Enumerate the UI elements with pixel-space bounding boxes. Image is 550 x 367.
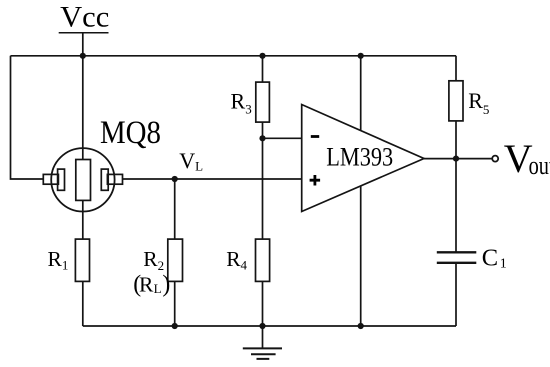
wire R3 R4 vertical branch <box>262 56 264 326</box>
op-amp U1 LM393 triangle <box>302 105 424 212</box>
svg-text:VL: VL <box>179 148 203 174</box>
wire top supply rail <box>11 55 457 57</box>
svg-text:Vcc: Vcc <box>60 1 109 34</box>
sensor MQ8 right pin tab <box>107 174 122 184</box>
wire node VL horizontal to op-amp plus input <box>123 178 302 180</box>
terminal Vout open circle <box>492 156 498 162</box>
node junction Vcc on top rail <box>80 53 86 59</box>
svg-text:R3: R3 <box>231 88 252 116</box>
svg-text:): ) <box>162 272 170 298</box>
sensor MQ8 left pin tab <box>43 174 58 184</box>
op-amp plus input sign <box>310 175 321 186</box>
wire MQ8 heater / R1 vertical branch <box>82 56 84 326</box>
node junction R3 top on top rail <box>259 53 265 59</box>
svg-text:MQ8: MQ8 <box>100 115 161 151</box>
resistor R5 <box>449 81 463 121</box>
wire C1 lower stem <box>455 263 457 326</box>
wire R3 bottom to op-amp minus input <box>263 137 302 139</box>
resistor R2 <box>168 239 183 281</box>
sensor MQ8 right electrode plate <box>101 169 108 190</box>
sensor MQ8 left electrode plate <box>58 169 65 190</box>
wire R5 C1 branch upper <box>455 56 457 253</box>
svg-text:R5: R5 <box>468 88 489 117</box>
sensor MQ8 heater element <box>76 160 91 201</box>
wire op-amp supply line <box>360 56 362 326</box>
node junction R3 bottom minus input <box>259 135 265 141</box>
node junction ground on bottom rail <box>259 323 265 329</box>
node junction op-amp supply on top rail <box>358 53 364 59</box>
svg-text:LM393: LM393 <box>326 142 393 172</box>
capacitor C1 plates <box>437 252 477 262</box>
wire op-amp output to Vout terminal <box>424 158 492 160</box>
svg-text:L: L <box>154 281 162 296</box>
wire left branch from rail to MQ8 left pin <box>11 56 44 179</box>
label RL parenthetical <box>133 272 170 298</box>
svg-text:Vout: Vout <box>504 136 550 181</box>
node junction R2 bottom rail <box>172 323 178 329</box>
resistor R1 <box>75 239 89 281</box>
node VL junction <box>172 176 178 182</box>
op-amp minus input sign <box>311 135 319 138</box>
label Vcc underline <box>59 32 109 34</box>
resistor R3 <box>256 82 270 122</box>
svg-text:R2: R2 <box>143 247 164 273</box>
node junction op-amp supply bottom rail <box>358 323 364 329</box>
svg-text:R4: R4 <box>226 247 247 273</box>
svg-text:R: R <box>139 273 154 297</box>
node junction output R5 C1 <box>453 156 459 162</box>
sensor MQ8 body circle <box>51 148 114 211</box>
wire R2 branch <box>174 179 176 326</box>
svg-text:R1: R1 <box>48 247 69 273</box>
svg-text:C1: C1 <box>482 245 507 272</box>
ground symbol <box>243 348 282 359</box>
wire bottom ground rail <box>83 325 456 327</box>
wire ground stem <box>262 326 264 348</box>
wire Vcc stem <box>82 33 84 55</box>
resistor R4 <box>256 239 270 281</box>
